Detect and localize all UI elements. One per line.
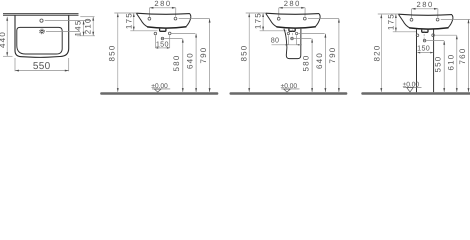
svg-text:210: 210 [83, 17, 92, 34]
svg-text:640: 640 [186, 52, 195, 69]
svg-text:790: 790 [328, 47, 337, 64]
svg-text:850: 850 [108, 45, 117, 62]
svg-text:175: 175 [254, 12, 263, 29]
svg-text:150: 150 [156, 40, 169, 49]
svg-text:640: 640 [315, 52, 324, 69]
svg-text:850: 850 [239, 45, 248, 62]
svg-text:145: 145 [73, 20, 82, 37]
svg-text:580: 580 [302, 55, 311, 72]
svg-text:580: 580 [172, 55, 181, 72]
svg-text:550: 550 [434, 56, 443, 73]
svg-text:175: 175 [124, 12, 133, 29]
svg-text:280: 280 [284, 0, 301, 8]
svg-text:280: 280 [154, 0, 171, 8]
svg-text:150: 150 [417, 44, 430, 53]
svg-text:440: 440 [0, 31, 7, 48]
svg-text:80: 80 [271, 36, 280, 45]
svg-text:790: 790 [199, 47, 208, 64]
svg-text:760: 760 [458, 48, 467, 65]
svg-text:280: 280 [417, 0, 434, 9]
svg-text:820: 820 [373, 45, 382, 62]
svg-text:175: 175 [387, 13, 396, 30]
svg-text:550: 550 [33, 61, 51, 72]
svg-text:610: 610 [446, 54, 455, 71]
